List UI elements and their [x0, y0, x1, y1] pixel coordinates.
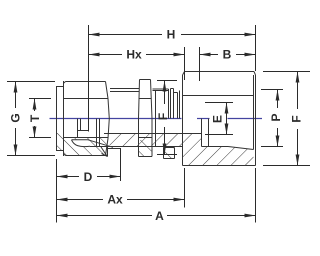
dimension graphics [7, 25, 310, 223]
arrow P up [276, 90, 280, 101]
extension line A/Ax/D left [56, 159, 58, 223]
arrow G down [14, 145, 18, 156]
dimension B line [200, 54, 256, 56]
nut internal section edges [78, 119, 100, 147]
arrow G up [14, 82, 18, 93]
arrow Hx left [89, 53, 100, 57]
arrow Ax right [174, 198, 185, 202]
arrow Hx right [174, 53, 185, 57]
svg-text:B: B [223, 48, 232, 62]
svg-text:F: F [156, 113, 170, 120]
svg-text:T: T [28, 114, 42, 122]
port counterbore step [202, 119, 209, 147]
arrow F-right up [296, 72, 300, 83]
arrow Ax left [57, 198, 68, 202]
extension line Ax right [184, 168, 186, 208]
body hex piece section hatch [139, 140, 153, 157]
front ferrule tip section [101, 147, 121, 157]
nut section hatch (lower half) [57, 133, 109, 156]
ferrule section pieces below centerline [156, 119, 175, 159]
back ferrule ring [174, 91, 180, 119]
front ferrule ring [171, 89, 174, 119]
svg-text:H: H [167, 28, 176, 42]
arrow B right [245, 53, 256, 57]
body seat band hatch [107, 134, 202, 147]
arrow D right [110, 175, 121, 179]
dimension T [29, 99, 51, 138]
seat band bottom line [90, 146, 183, 148]
arrow E down [225, 124, 229, 135]
svg-text:Hx: Hx [126, 48, 142, 62]
port thread line [202, 147, 254, 150]
bore line [104, 133, 202, 135]
arrow A right [245, 214, 256, 218]
nut hex body outline [64, 81, 110, 156]
arrow B left [200, 53, 211, 57]
dimension H line [89, 34, 256, 36]
ferrule sleeve piece [153, 89, 169, 119]
arrowheads [14, 33, 300, 218]
dimension F left [157, 81, 177, 155]
dimension D line [57, 176, 121, 178]
body outline [183, 72, 256, 166]
arrow T down [33, 127, 37, 138]
arrow H left [89, 33, 100, 37]
extension line D right [120, 148, 122, 181]
dimension A line [57, 215, 256, 217]
arrow T up [33, 99, 37, 110]
dimension E [205, 103, 233, 135]
extension line right end H/B/A top [255, 25, 257, 71]
arrow A left [57, 214, 68, 218]
body hex flat line [183, 95, 254, 97]
extension line A right [255, 168, 257, 223]
dimension Ax line [57, 199, 185, 201]
body hex piece outline [139, 80, 153, 157]
arrow D left [57, 175, 68, 179]
arrow F-left up [163, 81, 167, 92]
arrow E up [225, 103, 229, 114]
extension line B left [199, 47, 201, 81]
svg-text:E: E [211, 115, 225, 123]
back ferrule lens section [72, 140, 114, 148]
arrow H right [245, 33, 256, 37]
svg-text:P: P [269, 113, 283, 121]
dimension Hx line [89, 54, 185, 56]
svg-text:G: G [9, 113, 23, 122]
svg-text:A: A [155, 209, 164, 223]
dimension G [7, 82, 55, 156]
svg-text:F: F [290, 115, 304, 122]
nut back ring (outline) [57, 86, 64, 151]
extension line tube face / H left [88, 25, 90, 132]
dimension F right [263, 72, 310, 166]
centerline [50, 118, 263, 120]
svg-text:D: D [84, 170, 93, 184]
arrow F-right down [296, 155, 300, 166]
shank between nut and hex piece [110, 89, 139, 92]
svg-text:Ax: Ax [107, 193, 123, 207]
arrow F-left down [163, 144, 167, 155]
body lower wall hatch [183, 147, 254, 166]
extension line Hx right [184, 47, 186, 80]
arrow P down [276, 136, 280, 147]
nut hex flat lines [64, 99, 109, 138]
dimension labels [9, 28, 304, 224]
dimension P [261, 90, 283, 147]
